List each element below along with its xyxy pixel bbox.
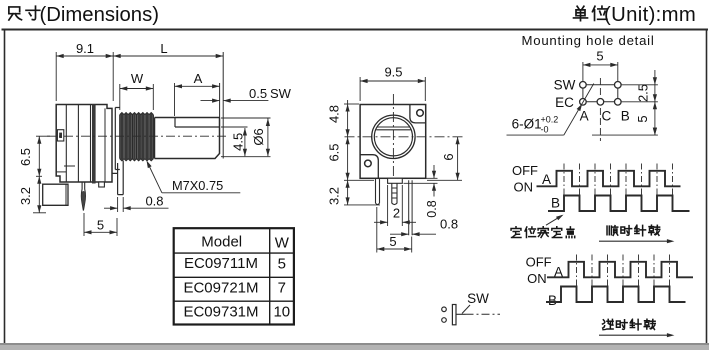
svg-text:A: A xyxy=(580,109,589,124)
SW switch symbol actuator bar xyxy=(452,305,456,325)
title 尺寸(Dimensions) xyxy=(9,7,22,20)
dimension 9.1 xyxy=(55,52,57,101)
svg-text:-0: -0 xyxy=(541,125,549,135)
front view center switch pin xyxy=(392,183,397,204)
SW switch symbol stem line xyxy=(456,313,466,315)
svg-text:3.2: 3.2 xyxy=(18,187,33,205)
svg-text:0.8: 0.8 xyxy=(425,200,439,217)
threads M7 bushing xyxy=(120,113,154,161)
dimension 6.5 front xyxy=(346,137,350,145)
dimension 0.8 front tab xyxy=(404,177,438,179)
svg-text:(Unit):mm: (Unit):mm xyxy=(604,4,696,26)
svg-text:5: 5 xyxy=(596,49,603,64)
dimension 2.5 mounting xyxy=(654,70,656,135)
svg-text:W: W xyxy=(131,71,144,86)
clockwise label 顺时针转 xyxy=(607,226,618,236)
front view top-right mounting ear xyxy=(410,105,426,123)
svg-text:7: 7 xyxy=(278,280,286,297)
frame border xyxy=(2,29,709,31)
counter-clockwise label 逆时针转 xyxy=(603,319,614,329)
svg-text:6: 6 xyxy=(441,153,456,160)
svg-text:Mounting hole detail: Mounting hole detail xyxy=(522,33,655,48)
svg-text:10: 10 xyxy=(273,304,290,321)
dimension 3.2 front xyxy=(346,180,350,188)
shaft flat D-cut line xyxy=(175,118,220,128)
side view small tab under body xyxy=(99,182,105,187)
svg-text:EC09711M: EC09711M xyxy=(184,255,258,272)
svg-text:SW: SW xyxy=(467,291,489,306)
svg-text:9.1: 9.1 xyxy=(76,41,94,56)
svg-text:6.5: 6.5 xyxy=(327,143,342,161)
waveform set2 trace B xyxy=(546,287,686,303)
svg-text:0.5: 0.5 xyxy=(249,86,267,101)
waveform set1 trace B xyxy=(548,196,690,212)
title 单位(Unit):mm xyxy=(574,6,588,20)
dimension 3.2 left xyxy=(33,212,46,214)
dimension L xyxy=(113,55,223,57)
waveform set2 detent dashed lines xyxy=(576,255,578,303)
dimension 6 front right xyxy=(427,179,462,181)
waveform set1 detent dashed lines xyxy=(563,164,565,212)
dimension W xyxy=(119,84,121,110)
side view kinked terminal pin xyxy=(81,182,85,211)
svg-text:EC09721M: EC09721M xyxy=(183,279,258,296)
svg-text:OFF: OFF xyxy=(512,163,538,178)
svg-text:A: A xyxy=(542,172,551,187)
svg-text:2: 2 xyxy=(393,206,400,221)
front view centerlines xyxy=(345,136,465,138)
svg-text:B: B xyxy=(548,293,557,308)
front view long terminal pin xyxy=(409,180,412,235)
svg-text:5: 5 xyxy=(97,218,104,233)
svg-text:0.8: 0.8 xyxy=(440,217,458,232)
side view body outline xyxy=(56,105,112,183)
dimension 0.5 SW xyxy=(201,100,220,102)
svg-text:C: C xyxy=(602,109,612,124)
dimension diameter 6 xyxy=(221,117,271,119)
side view mounting bracket foot xyxy=(43,184,68,205)
dimension 4.5 xyxy=(221,126,248,128)
svg-text:6.5: 6.5 xyxy=(18,148,33,166)
clockwise arrow xyxy=(599,240,672,242)
side view wafer dark strip xyxy=(92,105,96,184)
dimension A xyxy=(174,83,176,116)
SW label with leader tick xyxy=(462,305,470,314)
side view body internal lines xyxy=(65,105,67,183)
side view bushing collar xyxy=(115,108,120,170)
svg-text:5: 5 xyxy=(389,234,396,249)
side view support tab below bushing xyxy=(112,161,123,195)
svg-text:A: A xyxy=(194,71,203,86)
svg-text:4.8: 4.8 xyxy=(327,105,342,123)
front view shaft flat chords xyxy=(377,126,410,128)
mounting detail hole connect lines xyxy=(583,84,618,86)
dimension 5 front xyxy=(376,207,378,253)
dimension 0.8 side tab xyxy=(117,197,119,212)
shaft xyxy=(155,118,220,159)
waveform set1 trace A xyxy=(537,171,681,187)
detent point label 定位安定点 with arrow xyxy=(546,215,562,225)
svg-text:SW: SW xyxy=(554,78,576,93)
svg-text:EC09731M: EC09731M xyxy=(183,303,258,320)
svg-text:M7X0.75: M7X0.75 xyxy=(172,178,223,193)
svg-text:2.5: 2.5 xyxy=(636,84,651,102)
side view internal step line xyxy=(64,165,75,167)
shaft pushed phantom end line xyxy=(222,52,224,159)
side view small window with mark xyxy=(57,130,63,141)
dimension 4.8 front xyxy=(347,100,349,205)
svg-text:Ø6: Ø6 xyxy=(251,128,266,145)
svg-text:+0.2: +0.2 xyxy=(541,115,559,125)
dimension 2 front tab width xyxy=(387,185,389,226)
svg-text:EC: EC xyxy=(555,95,574,110)
front view inner circle xyxy=(374,118,412,156)
svg-text:ON: ON xyxy=(514,180,534,195)
mounting detail holes 6x xyxy=(580,82,587,89)
dimension 5 mounting vertical xyxy=(653,128,657,136)
mounting detail centerline dashed xyxy=(599,78,601,141)
svg-text:Model: Model xyxy=(201,234,242,251)
svg-text:L: L xyxy=(160,41,167,56)
svg-text:9.5: 9.5 xyxy=(384,65,402,80)
front view bottom tab xyxy=(388,178,403,183)
svg-text:4.5: 4.5 xyxy=(231,133,246,151)
bottom shadow bar xyxy=(0,343,709,350)
svg-text:5: 5 xyxy=(278,256,286,273)
svg-text:5: 5 xyxy=(635,115,650,122)
waveform set2 trace A xyxy=(547,262,693,278)
svg-text:B: B xyxy=(621,109,630,124)
front view bottom-left mounting ear xyxy=(360,155,378,179)
dimension 9.5 xyxy=(359,77,361,101)
front view left pin xyxy=(376,178,380,204)
centerline side view xyxy=(47,135,226,137)
dimension 6.5 left xyxy=(36,135,50,137)
front view outer circle xyxy=(372,115,415,158)
counter-clockwise arrow xyxy=(599,334,672,336)
dimension 0.8 long pin xyxy=(390,233,409,235)
svg-text:6-Ø1: 6-Ø1 xyxy=(512,117,542,132)
svg-text:3.2: 3.2 xyxy=(327,187,342,205)
svg-text:W: W xyxy=(275,235,290,252)
svg-text:0.8: 0.8 xyxy=(145,194,163,209)
svg-text:(Dimensions): (Dimensions) xyxy=(40,4,159,26)
svg-text:OFF: OFF xyxy=(526,255,552,270)
front view corner holes xyxy=(417,110,424,117)
dimension 5 side xyxy=(83,213,85,236)
dimension 5 mounting top xyxy=(582,62,584,81)
thread label M7X0.75 with leader xyxy=(162,192,240,194)
svg-text:ON: ON xyxy=(527,271,547,286)
svg-text:B: B xyxy=(551,196,560,211)
SW switch symbol contacts xyxy=(442,307,447,312)
model table xyxy=(174,228,294,324)
svg-text:SW: SW xyxy=(270,86,292,101)
front view square body xyxy=(360,105,426,179)
